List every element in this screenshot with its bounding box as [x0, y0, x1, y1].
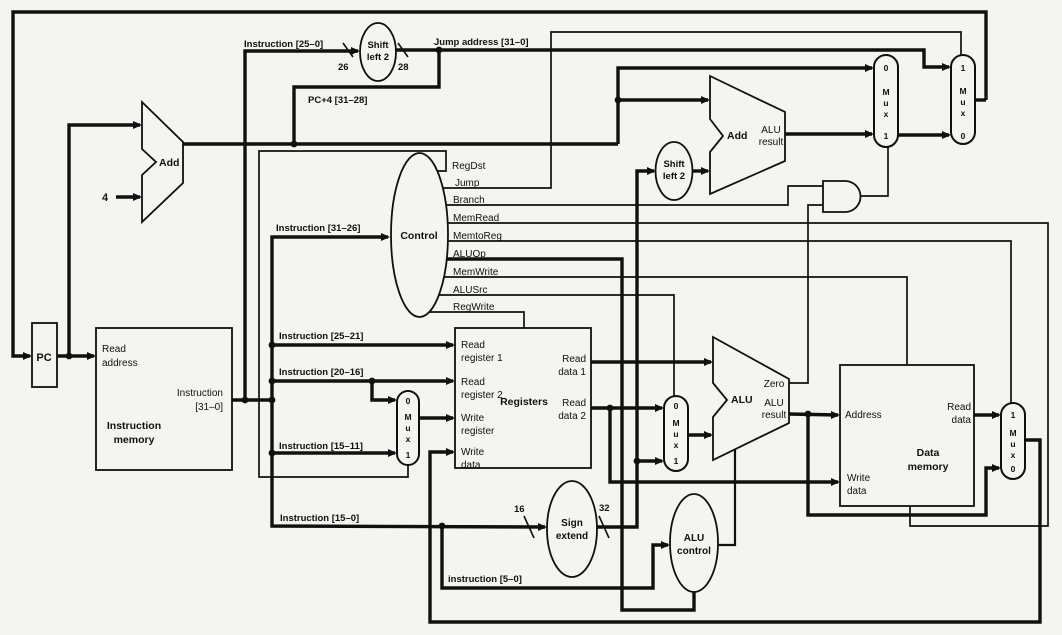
svg-text:Read: Read [947, 402, 971, 413]
svg-text:16: 16 [514, 504, 525, 515]
svg-text:4: 4 [102, 192, 109, 204]
svg-text:Address: Address [845, 410, 882, 421]
svg-text:Write: Write [847, 473, 871, 484]
svg-text:Data: Data [917, 447, 940, 459]
svg-text:ALU: ALU [731, 394, 753, 406]
svg-text:Add: Add [727, 130, 747, 142]
svg-text:x: x [1011, 450, 1016, 460]
svg-text:Jump address [31–0]: Jump address [31–0] [434, 37, 529, 48]
svg-text:Instruction: Instruction [177, 388, 223, 399]
svg-text:Read: Read [461, 377, 485, 388]
svg-text:M: M [1009, 428, 1016, 438]
svg-text:instruction [5–0]: instruction [5–0] [448, 574, 522, 585]
svg-text:x: x [674, 440, 679, 450]
svg-text:u: u [673, 429, 678, 439]
svg-text:register: register [461, 426, 495, 437]
svg-text:memory: memory [114, 434, 155, 446]
svg-text:u: u [1010, 439, 1015, 449]
svg-text:result: result [762, 410, 787, 421]
svg-text:data 2: data 2 [558, 411, 586, 422]
svg-text:ALUSrc: ALUSrc [453, 285, 487, 296]
svg-text:1: 1 [406, 450, 411, 460]
svg-text:1: 1 [961, 63, 966, 73]
svg-text:0: 0 [674, 401, 679, 411]
svg-text:Instruction [15–0]: Instruction [15–0] [280, 513, 359, 524]
svg-text:Shift: Shift [663, 159, 685, 170]
svg-text:Read: Read [102, 344, 126, 355]
svg-text:address: address [102, 358, 138, 369]
svg-text:Instruction [20–16]: Instruction [20–16] [279, 367, 363, 378]
svg-text:MemWrite: MemWrite [453, 267, 499, 278]
svg-text:Read: Read [562, 354, 586, 365]
svg-text:28: 28 [398, 62, 409, 73]
svg-text:Add: Add [159, 157, 179, 169]
svg-text:memory: memory [908, 461, 949, 473]
svg-text:M: M [404, 412, 411, 422]
svg-text:32: 32 [599, 503, 610, 514]
svg-text:data 1: data 1 [558, 367, 586, 378]
svg-text:x: x [406, 434, 411, 444]
svg-text:MemtoReg: MemtoReg [453, 231, 502, 242]
svg-text:Instruction [31–26]: Instruction [31–26] [276, 223, 360, 234]
svg-text:M: M [882, 87, 889, 97]
svg-text:1: 1 [884, 131, 889, 141]
svg-text:Read: Read [562, 398, 586, 409]
svg-text:x: x [884, 109, 889, 119]
svg-text:u: u [883, 98, 888, 108]
svg-text:Write: Write [461, 413, 485, 424]
svg-text:1: 1 [674, 456, 679, 466]
svg-text:[31–0]: [31–0] [195, 402, 223, 413]
svg-text:result: result [759, 137, 784, 148]
svg-text:Jump: Jump [455, 178, 480, 189]
svg-text:Instruction: Instruction [107, 420, 161, 432]
svg-text:Write: Write [461, 447, 485, 458]
svg-text:ALUOp: ALUOp [453, 249, 486, 260]
svg-text:0: 0 [406, 396, 411, 406]
svg-text:PC: PC [36, 352, 51, 364]
svg-text:RegDst: RegDst [452, 161, 486, 172]
svg-text:PC+4 [31–28]: PC+4 [31–28] [308, 95, 367, 106]
svg-text:ALU: ALU [764, 398, 783, 409]
svg-text:Sign: Sign [561, 518, 583, 529]
svg-text:data: data [461, 460, 481, 471]
svg-text:0: 0 [961, 131, 966, 141]
svg-text:0: 0 [1011, 464, 1016, 474]
svg-text:control: control [677, 546, 711, 557]
svg-text:Registers: Registers [500, 396, 548, 408]
svg-text:u: u [960, 97, 965, 107]
svg-text:Branch: Branch [453, 195, 485, 206]
svg-text:M: M [959, 86, 966, 96]
svg-text:MemRead: MemRead [453, 213, 499, 224]
svg-text:ALU: ALU [684, 533, 705, 544]
svg-text:26: 26 [338, 62, 349, 73]
svg-text:register 1: register 1 [461, 353, 503, 364]
svg-text:register 2: register 2 [461, 390, 503, 401]
svg-text:Zero: Zero [764, 379, 785, 390]
svg-text:Control: Control [400, 230, 437, 242]
svg-text:data: data [952, 415, 972, 426]
svg-text:data: data [847, 486, 867, 497]
svg-text:x: x [961, 108, 966, 118]
svg-text:1: 1 [1011, 410, 1016, 420]
svg-text:ALU: ALU [761, 125, 780, 136]
svg-text:RegWrite: RegWrite [453, 302, 495, 313]
svg-text:Instruction [15–11]: Instruction [15–11] [279, 441, 363, 452]
svg-text:left 2: left 2 [663, 171, 685, 182]
svg-text:extend: extend [556, 531, 588, 542]
svg-text:M: M [672, 418, 679, 428]
svg-text:Instruction [25–21]: Instruction [25–21] [279, 331, 363, 342]
svg-text:Shift: Shift [367, 40, 389, 51]
svg-text:Instruction [25–0]: Instruction [25–0] [244, 39, 323, 50]
svg-text:left 2: left 2 [367, 52, 389, 63]
svg-text:0: 0 [884, 63, 889, 73]
svg-text:u: u [405, 423, 410, 433]
svg-text:Read: Read [461, 340, 485, 351]
